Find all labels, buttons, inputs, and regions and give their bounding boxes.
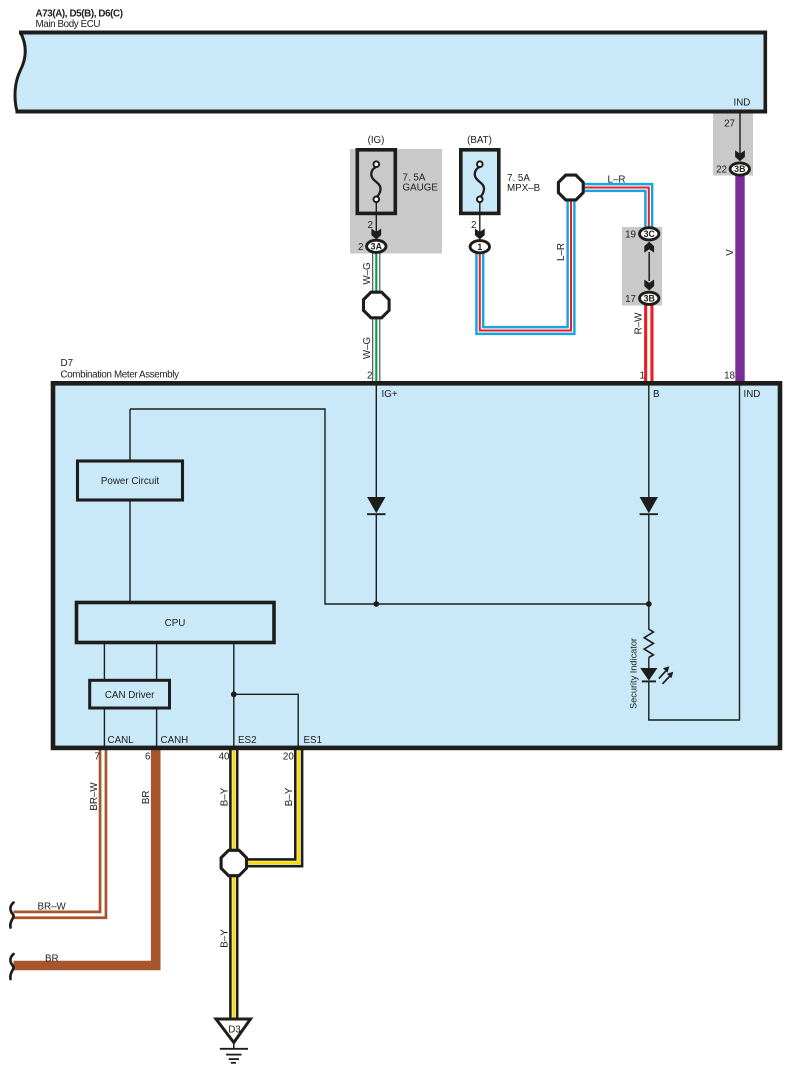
svg-text:MPX–B: MPX–B	[507, 183, 541, 194]
svg-text:D7: D7	[61, 358, 74, 369]
svg-text:CAN Driver: CAN Driver	[105, 690, 155, 701]
node dot ES	[231, 691, 237, 697]
svg-text:6: 6	[145, 752, 151, 763]
internal wire IG+ down to diode	[375, 385, 377, 497]
wire W-G upper	[372, 253, 380, 293]
wire CPU to ES2/ES1 pins	[233, 643, 235, 747]
connector 3B (22)	[730, 163, 749, 175]
ground triangle D3	[216, 1019, 251, 1043]
connector strip 3C/3B	[622, 227, 662, 306]
svg-text:3C: 3C	[644, 229, 656, 239]
svg-text:2: 2	[367, 371, 372, 382]
wire L-R from BAT fuse	[480, 201, 571, 331]
connector strip IND/27	[713, 114, 753, 176]
svg-text:Power Circuit: Power Circuit	[101, 476, 160, 487]
wire-break squiggle (BR)	[10, 954, 13, 979]
wire L-R to 3C	[584, 188, 649, 228]
svg-text:22: 22	[716, 165, 727, 176]
connector 3B (17)	[640, 292, 659, 304]
CPU box	[77, 603, 275, 643]
svg-text:Combination Meter Assembly: Combination Meter Assembly	[61, 370, 180, 381]
wires CAN Driver to CANL/CANH pins	[103, 708, 105, 746]
wire B-Y from ES1	[247, 746, 299, 863]
diode D-left	[367, 497, 385, 513]
connector strip behind IG fuse	[350, 149, 442, 254]
svg-text:IG+: IG+	[382, 389, 398, 400]
wire B-Y to ground	[229, 875, 238, 1019]
svg-text:ES1: ES1	[304, 735, 323, 746]
svg-text:18: 18	[724, 371, 735, 382]
svg-text:40: 40	[219, 752, 230, 763]
resistor (security indicator)	[648, 604, 650, 630]
svg-text:(IG): (IG)	[368, 135, 385, 146]
svg-text:Main Body ECU: Main Body ECU	[36, 19, 101, 30]
svg-text:W–G: W–G	[362, 262, 373, 284]
svg-text:(BAT): (BAT)	[467, 135, 492, 146]
svg-text:IND: IND	[744, 389, 761, 400]
CAN Driver box	[90, 680, 170, 708]
svg-text:D3: D3	[228, 1025, 241, 1036]
node dot left	[373, 601, 379, 607]
wire LED to IND pin	[649, 385, 740, 720]
svg-text:2: 2	[358, 242, 363, 253]
svg-text:BR–W: BR–W	[38, 902, 67, 913]
svg-text:1: 1	[477, 242, 482, 252]
svg-text:B–Y: B–Y	[219, 787, 230, 806]
pin lead 27 from ECU band	[739, 114, 741, 157]
fuse BAT 7.5A MPX-B	[461, 150, 499, 214]
svg-text:3B: 3B	[734, 164, 745, 174]
svg-text:W–G: W–G	[362, 337, 373, 359]
wires CPU to CAN Driver	[103, 643, 105, 681]
svg-text:B–Y: B–Y	[284, 787, 295, 806]
arrow up into 3C	[648, 252, 650, 281]
LED emission arrows	[659, 671, 666, 679]
connector 3C	[640, 228, 659, 240]
wire W-G lower	[372, 319, 380, 384]
svg-text:7: 7	[95, 752, 100, 763]
wire diode to node	[648, 514, 650, 604]
diode D-right	[640, 497, 658, 513]
svg-text:R–W: R–W	[633, 312, 644, 335]
fuse IG 7.5A GAUGE	[357, 150, 395, 214]
bus wire horizontal	[130, 409, 649, 604]
svg-text:BR: BR	[141, 790, 152, 804]
junction octagon (B-Y splice)	[221, 850, 246, 875]
arrow down into 3B	[644, 280, 654, 291]
svg-text:CANL: CANL	[108, 735, 135, 746]
ECU block (Main Body ECU band)	[15, 33, 765, 112]
wire diode to node	[375, 514, 377, 604]
connector 3A (IG fuse)	[367, 240, 386, 252]
svg-text:CANH: CANH	[161, 735, 189, 746]
LED (security indicator)	[640, 668, 657, 681]
svg-text:1: 1	[640, 371, 645, 382]
svg-text:27: 27	[724, 119, 735, 130]
svg-text:L–R: L–R	[556, 243, 567, 261]
combination meter assembly box D7	[53, 383, 780, 748]
svg-text:GAUGE: GAUGE	[403, 183, 439, 194]
node dot right	[646, 601, 652, 607]
junction octagon (W-G splice)	[364, 292, 390, 318]
wire V	[735, 176, 744, 383]
svg-text:3B: 3B	[644, 293, 655, 303]
svg-text:20: 20	[283, 752, 294, 763]
svg-text:2: 2	[368, 220, 373, 231]
ground symbol	[233, 1043, 235, 1049]
wire B-Y from ES2	[229, 746, 238, 851]
wire Power Circuit to CPU	[129, 500, 131, 603]
connector 1 (BAT fuse)	[470, 241, 489, 253]
wire BR	[14, 746, 156, 966]
wire into Power Circuit	[129, 409, 131, 461]
svg-text:17: 17	[625, 294, 636, 305]
svg-text:19: 19	[625, 229, 636, 240]
svg-text:CPU: CPU	[165, 618, 186, 629]
svg-text:ES2: ES2	[238, 735, 257, 746]
internal wire B down to diode	[648, 385, 650, 497]
wire R-W	[644, 305, 653, 384]
svg-text:B: B	[653, 389, 660, 400]
svg-text:BR: BR	[45, 954, 59, 965]
svg-text:V: V	[725, 249, 736, 256]
svg-text:2: 2	[471, 220, 476, 231]
wire-break squiggle (BR-W)	[10, 903, 13, 928]
svg-text:Security Indicator: Security Indicator	[629, 638, 639, 709]
svg-text:3A: 3A	[371, 241, 383, 251]
svg-text:L–R: L–R	[608, 175, 626, 186]
svg-text:IND: IND	[734, 98, 751, 109]
svg-text:A73(A), D5(B), D6(C): A73(A), D5(B), D6(C)	[36, 9, 124, 20]
wire BR-W	[14, 746, 104, 915]
Power Circuit box	[78, 461, 183, 500]
junction octagon (L-R splice)	[558, 175, 583, 200]
svg-text:B–Y: B–Y	[219, 929, 230, 948]
torn/wavy left edge of ECU band	[15, 33, 25, 112]
svg-text:BR–W: BR–W	[89, 782, 100, 811]
